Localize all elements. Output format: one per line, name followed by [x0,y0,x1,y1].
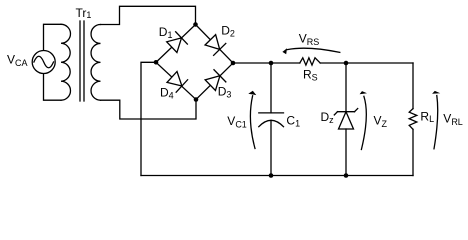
resistor RL [409,109,417,130]
wire source top to primary winding [44,24,62,50]
junction dot bridge left node [154,60,159,65]
arrow V_Z [360,91,367,149]
transformer Tr1 core [80,21,84,101]
wire bridge left node to bottom rail [141,62,156,175]
diode D4 [166,71,187,93]
svg-text:VRS: VRS [299,31,320,47]
svg-text:Tr1: Tr1 [76,6,92,20]
wire Dz branch top [345,63,347,112]
svg-text:VC1: VC1 [227,114,247,130]
svg-text:Dz: Dz [321,110,335,125]
wire Dz branch bottom [345,129,347,176]
transformer Tr1 primary winding [61,24,70,100]
junction dot C1 bottom [269,173,274,178]
junction dot bridge bottom node [194,97,199,102]
svg-text:RL: RL [420,109,434,124]
transformer Tr1 secondary winding [91,25,100,101]
resistor Rs [300,58,320,65]
top rail wire right node to Rs [233,62,300,64]
svg-text:D3: D3 [218,84,232,99]
svg-text:D1: D1 [159,25,173,40]
bridge arm bottom-left (node L to node B) [156,62,196,99]
diode D1 [166,32,187,54]
junction dot Dz bottom [344,173,349,178]
top rail wire Rs to RL corner [320,62,413,64]
ac source V_CA [32,51,55,74]
bridge arm top-left (node T to node L) [156,25,196,63]
junction dot bridge top node [193,22,198,27]
bridge arm top-right (node T to node R) [196,25,234,64]
bridge arm bottom-right (node B to node R) [196,63,233,100]
zener diode Dz [334,109,357,130]
diode D2 [204,34,226,55]
arrow V_RL [432,91,440,149]
capacitor C1 [259,113,284,127]
svg-text:VZ: VZ [374,114,388,130]
bottom rail wire [141,175,413,177]
wire source bottom to primary winding [44,74,62,101]
wire C1 branch bottom [270,120,272,175]
junction dot bridge right node [231,61,236,66]
svg-text:C1: C1 [286,113,300,128]
svg-text:VRL: VRL [443,111,463,127]
svg-text:RS: RS [303,68,318,83]
wire secondary bottom to bridge bottom node [101,100,197,120]
diode D3 [204,70,225,92]
wire C1 branch top [270,63,272,113]
svg-text:VCA: VCA [7,52,28,68]
wire RL branch top [412,63,414,109]
svg-text:D2: D2 [221,24,235,39]
arrow V_C1 [248,91,256,149]
wire secondary top to bridge top node [101,6,196,24]
junction dot C1 top [269,61,274,66]
junction dot Dz top [344,61,349,66]
svg-text:D4: D4 [160,86,174,101]
arrow V_RS [282,48,339,54]
wire RL branch bottom [412,129,414,175]
